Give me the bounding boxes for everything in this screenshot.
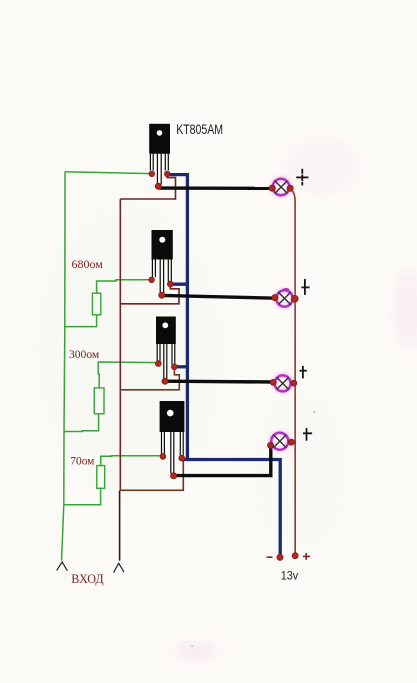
wire dark to input terminal	[119, 491, 121, 561]
wire maroon Q2 jog to bus	[120, 285, 179, 304]
plus mark supply	[303, 553, 310, 560]
lamp HL4	[271, 433, 288, 450]
wire maroon Q1 emitter jog to bus	[120, 175, 175, 199]
resistor R3	[97, 466, 105, 489]
wire green feed to Q1 base	[65, 172, 152, 174]
wire green R2 bottom to bus	[64, 414, 98, 432]
resistor R1	[92, 293, 100, 315]
lamp HL2	[276, 289, 292, 307]
svg-text:13v: 13v	[281, 569, 299, 583]
node HL1 left	[269, 185, 275, 191]
node Q1 collector	[155, 183, 161, 189]
wire blue Q2 stub	[170, 283, 187, 286]
svg-text:680ом: 680ом	[72, 259, 104, 271]
minus mark supply	[267, 556, 273, 558]
transistor Q4	[160, 401, 185, 474]
input terminal left caret	[57, 562, 68, 571]
node Q4 emitter	[179, 455, 185, 461]
node Q1 emitter	[164, 171, 170, 177]
wire green R1 bottom to bus	[64, 315, 97, 327]
node Q3 emitter	[171, 364, 177, 370]
wire maroon vertical bus	[119, 199, 121, 491]
wire green R3 top to Q4 base	[101, 456, 163, 466]
node HL4 left	[268, 442, 274, 448]
resistor R2	[94, 388, 104, 414]
node Q4 base	[160, 454, 166, 460]
wire blue Q3 stub	[174, 365, 187, 368]
node Q1 base	[149, 171, 155, 177]
node HL1 right	[287, 185, 293, 191]
node Q4 collector	[171, 473, 177, 479]
wire blue Q4 stub	[182, 458, 188, 461]
plus mark HL3	[300, 366, 307, 379]
node Q2 base	[149, 277, 155, 283]
plus mark HL1	[296, 169, 308, 186]
node HL4 right	[288, 439, 294, 445]
input terminal right caret	[114, 563, 124, 572]
node Q2 collector	[159, 292, 165, 298]
plus mark HL4	[303, 428, 312, 441]
node HL2 left	[272, 295, 278, 301]
wire maroon Q4 jog to bus	[120, 460, 183, 491]
wire green input bus (left vertical)	[62, 172, 66, 561]
wire green R2 top to Q3 base	[98, 362, 158, 388]
node Q3 base	[155, 361, 161, 367]
node HL2 right	[291, 295, 298, 302]
node Q3 collector	[162, 378, 168, 384]
lamp HL3	[275, 375, 291, 391]
stray speck 2	[191, 645, 193, 647]
wire black Q4 collector to lamp HL4	[174, 447, 271, 476]
svg-text:70ом: 70ом	[70, 455, 95, 467]
transistor Q2	[152, 230, 173, 293]
wire blue negative bus	[168, 175, 281, 557]
wire red +13v bus (right vertical)	[290, 190, 295, 556]
wire green R3 bottom to bus	[64, 488, 101, 505]
wire green R1 top to Q2 base	[97, 280, 152, 293]
svg-text:ВХОД: ВХОД	[71, 572, 104, 586]
lamp HL1	[273, 179, 290, 196]
plus mark HL2	[301, 279, 309, 295]
stray speck 1	[313, 411, 315, 413]
node negative terminal	[277, 554, 283, 560]
node HL3 left	[270, 379, 276, 385]
wire black Q3 collector to lamp HL3	[165, 380, 274, 384]
transistor Q1	[149, 124, 170, 185]
wire maroon Q3 jog to bus	[120, 368, 179, 390]
svg-text:300ом: 300ом	[69, 349, 100, 361]
svg-text:KT805AM: KT805AM	[176, 122, 223, 137]
wire black Q2 collector to lamp HL2	[162, 295, 276, 298]
node Q2 emitter	[167, 281, 173, 287]
transistor Q3	[156, 317, 176, 379]
node positive terminal	[292, 553, 298, 559]
wire black Q1 collector to lamp HL1	[158, 186, 272, 190]
node HL3 right	[291, 380, 297, 386]
